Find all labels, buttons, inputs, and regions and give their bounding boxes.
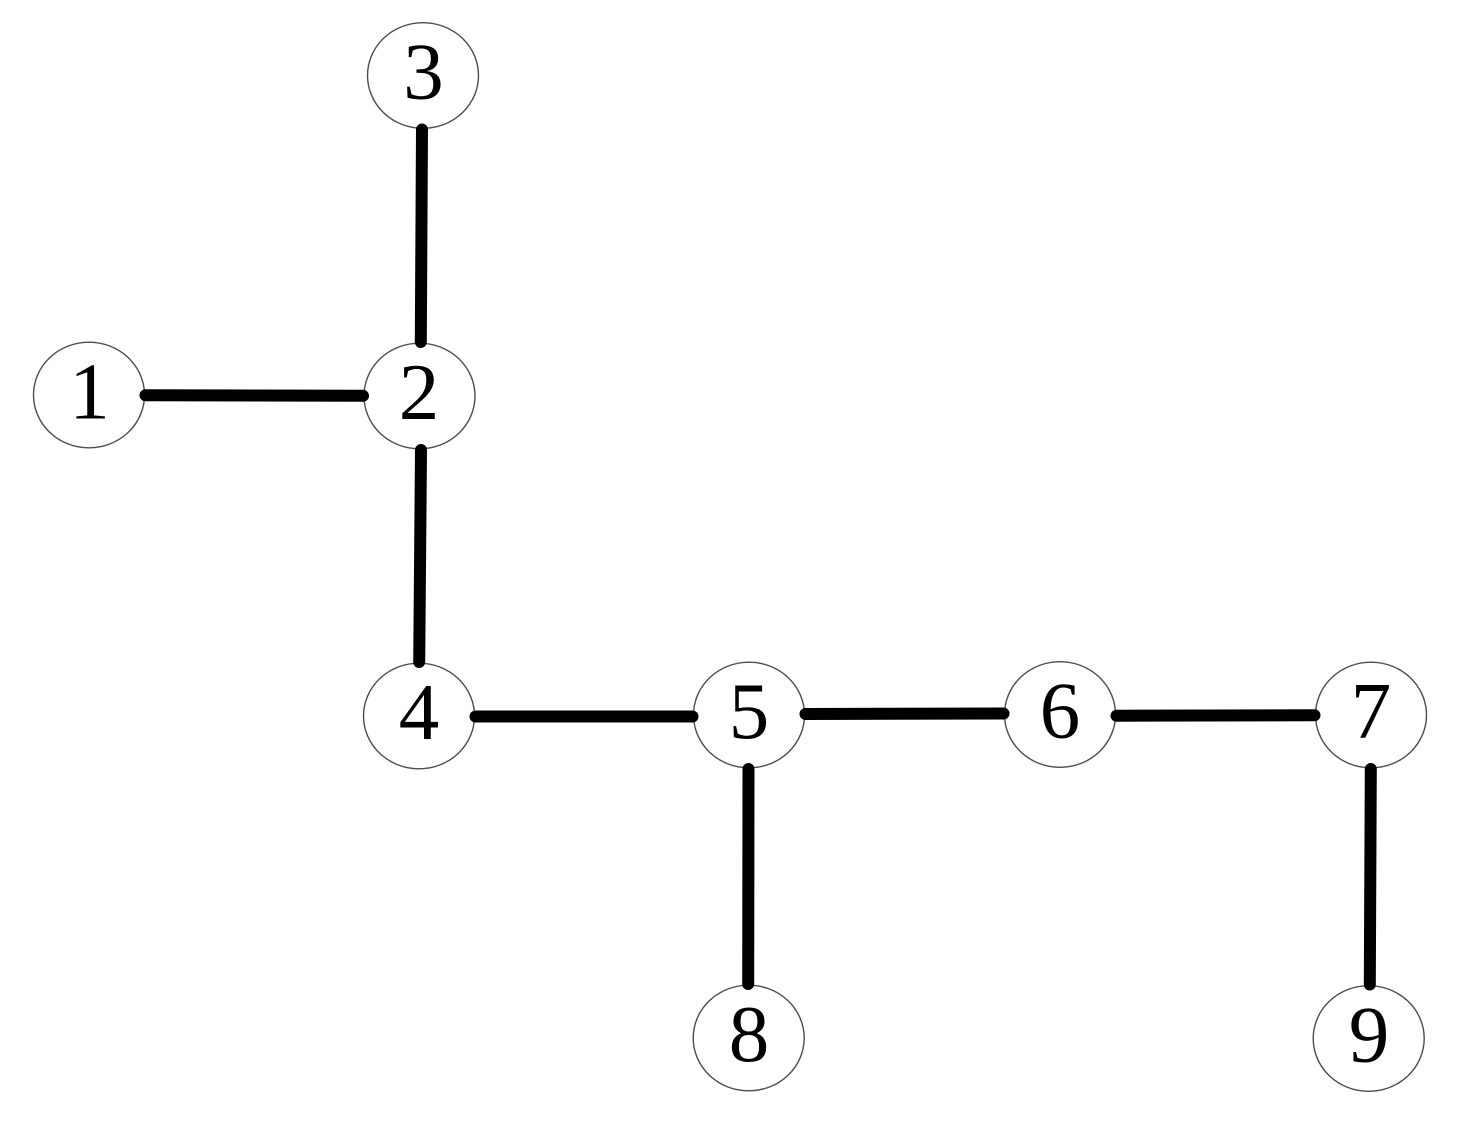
node 5 <box>694 662 805 768</box>
svg-text:1: 1 <box>69 346 110 436</box>
edge 2-4 <box>419 450 421 662</box>
node 3 <box>368 23 479 129</box>
svg-text:4: 4 <box>399 667 440 757</box>
edge 6-7 <box>1117 709 1315 721</box>
svg-text:8: 8 <box>729 989 770 1079</box>
svg-text:9: 9 <box>1349 990 1390 1080</box>
node 8 <box>693 985 804 1091</box>
node 9 <box>1313 986 1424 1092</box>
svg-text:7: 7 <box>1351 666 1392 756</box>
node 6 <box>1005 662 1116 768</box>
edge 5-6 <box>806 708 1004 721</box>
svg-text:2: 2 <box>399 347 440 437</box>
svg-text:3: 3 <box>403 27 444 117</box>
edge 3-2 <box>421 130 422 343</box>
node 2 <box>364 343 475 449</box>
edge 5-8 <box>742 769 754 984</box>
edge 4-5 <box>476 711 693 723</box>
node 7 <box>1316 662 1427 768</box>
node 4 <box>364 663 475 769</box>
node 1 <box>34 342 145 448</box>
svg-text:5: 5 <box>729 666 770 756</box>
edge 1-2 <box>146 389 364 402</box>
edge 7-9 <box>1370 769 1371 985</box>
svg-text:6: 6 <box>1040 666 1081 756</box>
